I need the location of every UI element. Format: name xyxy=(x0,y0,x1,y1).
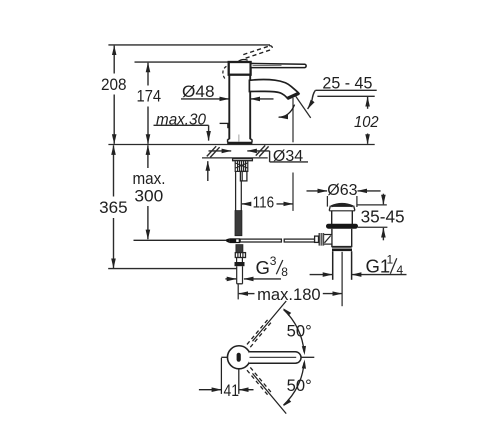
svg-text:25 - 45: 25 - 45 xyxy=(322,74,372,92)
svg-text:50°: 50° xyxy=(287,321,312,340)
svg-text:208: 208 xyxy=(101,75,127,94)
svg-text:max.: max. xyxy=(133,169,166,188)
svg-text:1: 1 xyxy=(387,253,394,267)
svg-text:max.30: max.30 xyxy=(156,111,206,128)
svg-text:300: 300 xyxy=(134,186,163,205)
svg-text:174: 174 xyxy=(137,86,162,105)
svg-text:4: 4 xyxy=(397,263,404,277)
svg-text:35-45: 35-45 xyxy=(361,206,405,226)
svg-text:Ø48: Ø48 xyxy=(182,82,215,101)
svg-text:Ø63: Ø63 xyxy=(327,182,357,199)
svg-text:8: 8 xyxy=(281,265,288,279)
svg-text:116: 116 xyxy=(253,195,275,212)
svg-text:G: G xyxy=(256,257,270,278)
svg-text:365: 365 xyxy=(99,198,128,217)
svg-text:max.180: max.180 xyxy=(257,285,321,304)
svg-text:102: 102 xyxy=(354,114,379,131)
svg-text:50°: 50° xyxy=(287,376,312,395)
svg-text:3: 3 xyxy=(270,254,277,268)
svg-text:Ø34: Ø34 xyxy=(273,148,303,165)
svg-text:41: 41 xyxy=(223,382,239,400)
